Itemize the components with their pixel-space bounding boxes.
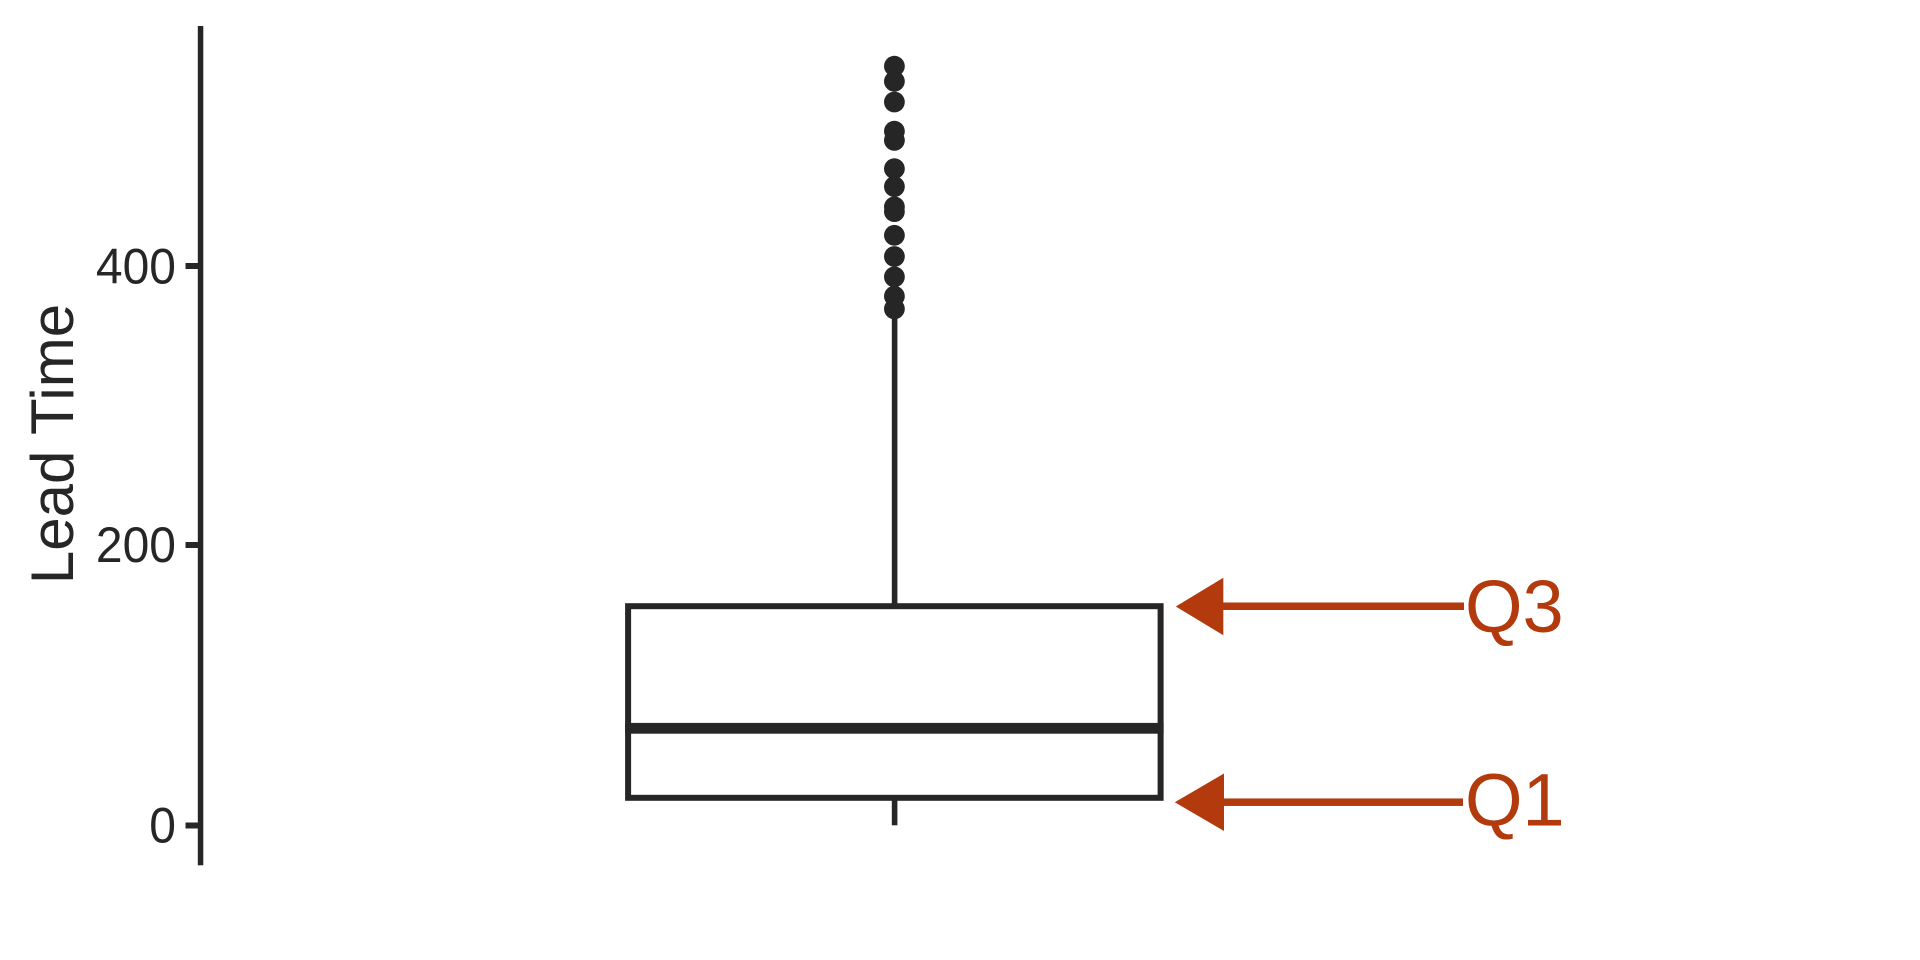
y-axis tick 200	[186, 542, 199, 548]
Q1 label digit foot serif	[1528, 820, 1561, 826]
lower whisker	[892, 798, 898, 825]
y-axis spine	[198, 26, 204, 865]
y-axis tick 0	[186, 823, 199, 829]
Q3 annotation arrow	[1176, 578, 1464, 636]
svg-text:Lead Time: Lead Time	[19, 304, 86, 584]
median line	[625, 723, 1164, 734]
svg-text:Q3: Q3	[1465, 565, 1564, 648]
box (IQR)	[628, 606, 1161, 798]
svg-text:Q1: Q1	[1465, 759, 1564, 842]
upper whisker	[892, 312, 898, 608]
svg-text:200: 200	[96, 518, 176, 573]
outlier dots	[884, 56, 905, 320]
svg-text:0: 0	[149, 799, 176, 854]
svg-text:400: 400	[96, 240, 176, 295]
y-axis tick 400	[186, 263, 199, 269]
Q1 annotation arrow	[1175, 773, 1463, 831]
